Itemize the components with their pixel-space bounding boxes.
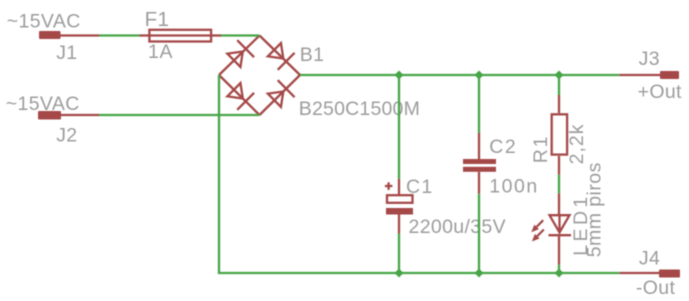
svg-text:J3: J3	[639, 48, 660, 70]
svg-text:J2: J2	[56, 124, 77, 146]
svg-text:C2: C2	[489, 136, 517, 158]
svg-text:B250C1500M: B250C1500M	[299, 98, 420, 120]
svg-text:2200u/35V: 2200u/35V	[409, 216, 507, 238]
svg-text:J1: J1	[56, 42, 77, 64]
svg-text:2,2k: 2,2k	[566, 124, 588, 165]
svg-text:5mm piros: 5mm piros	[584, 162, 606, 257]
svg-text:-Out: -Out	[636, 277, 676, 299]
svg-text:1A: 1A	[148, 41, 173, 63]
svg-text:J4: J4	[639, 247, 660, 269]
svg-text:B1: B1	[300, 44, 325, 66]
svg-text:F1: F1	[145, 8, 170, 31]
svg-text:100n: 100n	[489, 175, 538, 197]
svg-text:~15VAC: ~15VAC	[7, 11, 81, 33]
svg-text:R1: R1	[530, 135, 552, 164]
svg-text:+Out: +Out	[638, 81, 682, 103]
